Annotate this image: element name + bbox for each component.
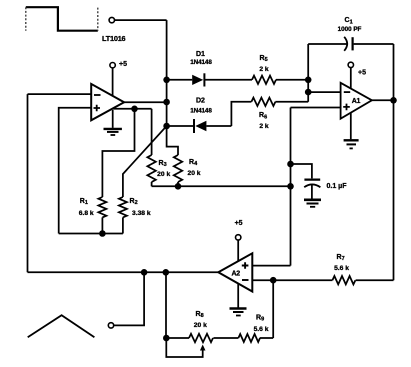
wire comparator minus row [28, 93, 92, 95]
wire R3 top lead [151, 109, 153, 155]
node bus/comparator output [163, 99, 170, 106]
ground (0.1uF) [304, 200, 321, 207]
diode D2 [194, 119, 206, 133]
svg-text:D2: D2 [196, 98, 205, 105]
wire comparator output [124, 101, 167, 103]
wire bus x308 [307, 44, 309, 102]
square wave symbol [26, 7, 98, 31]
node A1 minus/bus308 [305, 89, 312, 96]
svg-text:+5: +5 [235, 220, 243, 227]
minus glyph (A2) [242, 279, 249, 281]
op-amp A1 [341, 83, 372, 119]
wire A2 supply stem [237, 240, 239, 262]
wire A2 ground stem [237, 283, 239, 308]
ground (comparator) [104, 129, 122, 135]
plus glyph (A1) [343, 104, 350, 111]
wire A1 ground stem [350, 113, 352, 139]
op-amp A2 [218, 253, 252, 291]
wire R1 top jog from output node [102, 109, 134, 197]
terminal square-wave output [109, 17, 114, 22]
wire A1 output [372, 99, 394, 101]
svg-text:20 k: 20 k [187, 170, 200, 177]
node cap 0.1uF tap [287, 161, 294, 168]
wire bus x290 [290, 108, 292, 266]
resistor R1 [98, 197, 106, 217]
resistor R8 [189, 334, 213, 342]
wire riser x166 A2out to R8 [165, 272, 167, 338]
svg-text:A1: A1 [352, 98, 361, 105]
resistor R9 [238, 334, 260, 342]
resistor R6 [251, 98, 275, 106]
svg-text:+5: +5 [119, 61, 127, 68]
svg-text:1N4148: 1N4148 [190, 108, 212, 115]
ground (A1) [344, 140, 359, 148]
svg-text:A2: A2 [232, 271, 241, 278]
node R1 top tap [131, 106, 138, 113]
svg-text:2 k: 2 k [259, 123, 269, 130]
wire R1 bottom lead [101, 217, 103, 233]
wire plus-node segment right of comparator [110, 108, 152, 110]
svg-text:1N4148: 1N4148 [190, 59, 212, 66]
wire 0.1uF connection [291, 164, 312, 178]
wire comparator plus row / inner bus [59, 108, 91, 234]
capacitor 0.1uF [304, 180, 320, 188]
wire R3R4 bottom row to bus290 [152, 185, 291, 187]
wire R8 row [166, 337, 189, 339]
wire comparator ground stem [112, 110, 114, 128]
wire R4 bottom lead [177, 182, 179, 186]
arrow R8 wiper [200, 345, 206, 351]
node bus/D1 [163, 77, 170, 84]
capacitor C1 [344, 37, 352, 51]
op-amp A1 supply terminal [348, 62, 353, 67]
minus glyph (A1) [344, 91, 350, 93]
wire R8 wiper loop [166, 338, 202, 357]
wire A1 minus row [308, 91, 340, 93]
svg-text:20 k: 20 k [157, 171, 170, 178]
resistor R3 [147, 155, 155, 182]
svg-text:5.6 k: 5.6 k [334, 265, 349, 272]
node bus/D2/diagonal [163, 123, 170, 130]
resistor R2 [119, 197, 127, 217]
resistor R4 [174, 155, 182, 182]
wire terminal to bus [115, 19, 167, 21]
triangle wave symbol [28, 315, 95, 337]
wire A2 minus row with R7 [252, 279, 393, 281]
svg-text:+5: +5 [358, 69, 366, 76]
svg-text:LT1016: LT1016 [102, 34, 126, 43]
plus glyph (comparator) [94, 105, 101, 112]
svg-text:5.6 k: 5.6 k [254, 326, 269, 333]
wire riser x144 to triangle terminal [114, 272, 144, 325]
node A2 out/terminal riser [141, 269, 148, 276]
wire C1 row [308, 43, 393, 45]
node R8 left/wiper [163, 335, 170, 342]
svg-text:6.8 k: 6.8 k [79, 210, 94, 217]
node A1 output [390, 97, 397, 104]
wire D1 row [167, 79, 309, 81]
resistor R5 [252, 76, 276, 84]
wire main bus x166 [167, 20, 178, 155]
node R1 bottom [99, 230, 106, 237]
node A2 out/R8 riser [163, 269, 170, 276]
wire diagonal to R2 top [123, 126, 167, 197]
svg-text:0.1 µF: 0.1 µF [327, 183, 348, 190]
wire A1 plus row [291, 107, 341, 109]
op-amp comparator LT1016 [91, 84, 124, 120]
wire 0.1uF lower stem [311, 185, 313, 199]
svg-text:3.38 k: 3.38 k [132, 210, 151, 217]
wire R9 row [213, 337, 273, 339]
wire A1 supply stem [350, 68, 352, 90]
wire A2 output row [28, 271, 219, 273]
wire D2 row [167, 125, 232, 127]
wire R2 bottom lead [122, 217, 124, 233]
resistor R7 [332, 276, 355, 284]
wire R6 row and drop to D2 [231, 102, 308, 126]
diode D1 [192, 73, 204, 86]
wire R3 bottom lead [151, 182, 153, 186]
wire R1 R2 bottom row [59, 233, 123, 235]
ground (A2) [230, 309, 247, 316]
svg-text:D1: D1 [196, 51, 205, 58]
node A2 minus/R7/R9 [270, 277, 277, 284]
minus glyph (comparator) [94, 94, 101, 96]
wire comparator supply stem [112, 68, 114, 97]
svg-text:20 k: 20 k [194, 322, 207, 329]
node R5/bus308 [305, 77, 312, 84]
terminal triangle-wave output [108, 323, 113, 328]
plus glyph (A2) [242, 262, 249, 269]
wire A2 plus row [252, 265, 290, 267]
svg-text:1000 PF: 1000 PF [338, 26, 362, 33]
comparator supply terminal +5 [110, 62, 115, 67]
node R4 bottom [175, 183, 182, 190]
wire left bus [27, 94, 29, 272]
op-amp A2 supply terminal [236, 235, 241, 240]
wire bus x393 (A1 output / feedback) [393, 44, 395, 280]
wire riser to R9 from minus node [272, 280, 274, 338]
node R3R4 row/bus290 [287, 183, 294, 190]
svg-text:2 k: 2 k [259, 66, 269, 73]
